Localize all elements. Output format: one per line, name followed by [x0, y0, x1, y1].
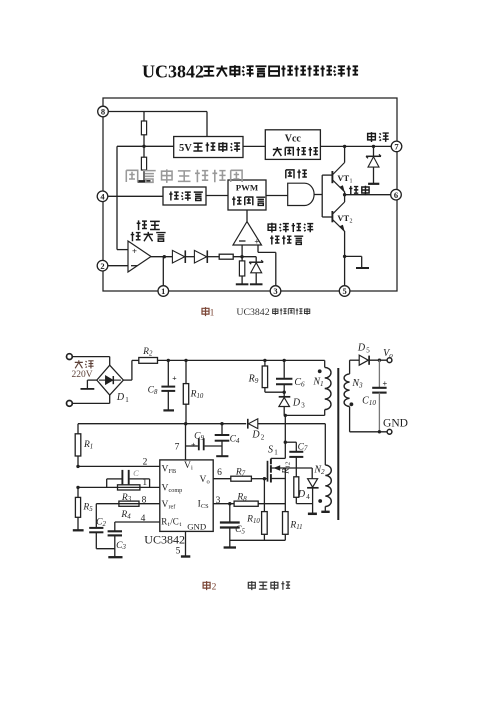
svg-text:PWM: PWM	[236, 183, 259, 193]
svg-text:V: V	[200, 475, 207, 485]
svg-text:UC3842: UC3842	[142, 62, 204, 82]
svg-text:5: 5	[342, 286, 346, 296]
svg-text:2: 2	[350, 218, 353, 224]
svg-text:Vcc: Vcc	[285, 134, 302, 145]
svg-text:C: C	[133, 468, 139, 478]
svg-text:5: 5	[176, 546, 181, 556]
svg-text:V: V	[162, 483, 169, 493]
svg-text:i: i	[191, 465, 193, 472]
svg-text:o: o	[207, 479, 210, 486]
svg-text:3: 3	[216, 496, 221, 506]
svg-text:S: S	[268, 445, 273, 456]
svg-text:CS: CS	[201, 503, 209, 510]
svg-text:D: D	[116, 392, 125, 403]
svg-text:1: 1	[142, 478, 147, 488]
svg-text:comp: comp	[169, 487, 183, 494]
svg-text:7: 7	[175, 443, 180, 453]
svg-text:+: +	[191, 440, 196, 449]
svg-text:2: 2	[100, 261, 104, 271]
svg-text:GND: GND	[187, 521, 206, 531]
svg-text:+: +	[382, 379, 387, 388]
svg-text:2: 2	[212, 583, 217, 593]
svg-text:ref: ref	[169, 504, 177, 511]
svg-text:8: 8	[101, 107, 105, 117]
svg-text:+: +	[254, 236, 259, 246]
svg-text:5V: 5V	[179, 143, 192, 154]
svg-text:+: +	[132, 246, 137, 256]
svg-text:R: R	[161, 517, 167, 527]
svg-text:t: t	[180, 521, 182, 528]
svg-text:/C: /C	[170, 517, 179, 527]
svg-text:+: +	[172, 374, 177, 383]
svg-text:V: V	[162, 464, 169, 474]
svg-text:UC3842: UC3842	[236, 307, 269, 318]
svg-text:1: 1	[350, 179, 353, 185]
svg-text:1: 1	[125, 396, 129, 404]
svg-text:FB: FB	[169, 468, 177, 475]
svg-text:D: D	[292, 398, 301, 409]
svg-text:5: 5	[366, 346, 370, 354]
svg-text:3: 3	[273, 286, 277, 296]
svg-text:2: 2	[143, 458, 148, 468]
svg-text:VT: VT	[337, 213, 349, 223]
svg-text:D: D	[251, 430, 260, 441]
svg-text:2: 2	[261, 433, 265, 441]
svg-text:V: V	[184, 461, 191, 471]
svg-text:1: 1	[210, 309, 215, 319]
svg-text:VT: VT	[337, 173, 349, 183]
svg-text:1: 1	[274, 448, 278, 456]
svg-text:1: 1	[161, 286, 165, 296]
svg-text:6: 6	[217, 468, 222, 478]
svg-text:4: 4	[306, 493, 310, 501]
svg-text:UC3842: UC3842	[144, 533, 185, 547]
svg-text:3: 3	[301, 401, 305, 409]
svg-text:220V: 220V	[71, 370, 92, 380]
svg-text:D: D	[357, 343, 366, 354]
svg-text:D: D	[297, 489, 306, 500]
svg-text:V: V	[162, 500, 169, 510]
svg-text:6: 6	[394, 190, 398, 200]
svg-text:GND: GND	[383, 418, 408, 430]
